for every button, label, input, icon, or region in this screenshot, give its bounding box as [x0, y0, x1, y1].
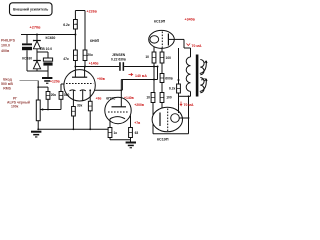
svg-text:АС: АС [201, 77, 206, 81]
svg-text:КС630: КС630 [22, 57, 32, 61]
svg-text:500 мВ: 500 мВ [1, 82, 13, 86]
svg-text:+200в: +200в [134, 103, 144, 107]
svg-text:+140в: +140в [124, 96, 134, 100]
svg-text:КС630: КС630 [46, 36, 56, 40]
svg-text:33к: 33к [77, 104, 83, 108]
svg-text:100: 100 [166, 96, 172, 100]
svg-text:PHILIPS: PHILIPS [1, 39, 16, 43]
svg-text:0.22 630в: 0.22 630в [111, 57, 126, 61]
svg-text:360: 360 [64, 93, 70, 97]
svg-text:6Н9П: 6Н9П [90, 39, 100, 43]
svg-text:10: 10 [145, 55, 149, 59]
svg-text:+90в: +90в [97, 77, 105, 81]
svg-text:+7в: +7в [134, 121, 140, 125]
svg-text:47к: 47к [63, 57, 69, 61]
svg-text:ПВ 10.0: ПВ 10.0 [40, 47, 52, 51]
svg-text:Вход: Вход [3, 77, 12, 81]
svg-text:100: 100 [166, 56, 172, 60]
svg-text:6П3С: 6П3С [106, 97, 116, 101]
svg-text:+9в: +9в [96, 96, 102, 100]
svg-text:6С19П: 6С19П [157, 138, 169, 142]
svg-text:63: 63 [135, 131, 139, 135]
svg-text:+270в: +270в [30, 26, 42, 30]
svg-text:+140в: +140в [89, 61, 99, 65]
svg-text:6С19П: 6С19П [154, 20, 166, 24]
svg-text:+120в: +120в [50, 80, 60, 84]
svg-text:140 мА: 140 мА [135, 74, 147, 78]
svg-text:RMS: RMS [3, 86, 11, 90]
svg-text:JENSEN: JENSEN [112, 53, 126, 57]
svg-text:Внешний усилитель: Внешний усилитель [13, 8, 48, 12]
svg-text:6.2к: 6.2к [169, 86, 176, 90]
svg-text:100к: 100к [11, 104, 19, 108]
svg-text:+340в: +340в [185, 18, 196, 22]
svg-text:20к: 20к [51, 93, 57, 97]
svg-text:600в: 600в [165, 76, 173, 80]
svg-text:+226в: +226в [87, 9, 98, 13]
svg-text:70 мА: 70 мА [192, 44, 202, 48]
svg-text:100.0: 100.0 [1, 44, 10, 48]
svg-text:20к: 20к [87, 53, 93, 57]
svg-text:70 мА: 70 мА [184, 103, 194, 107]
svg-text:1к: 1к [114, 131, 118, 135]
svg-text:10: 10 [146, 96, 150, 100]
svg-text:6.2к: 6.2к [63, 23, 70, 27]
svg-text:400в: 400в [1, 49, 10, 53]
